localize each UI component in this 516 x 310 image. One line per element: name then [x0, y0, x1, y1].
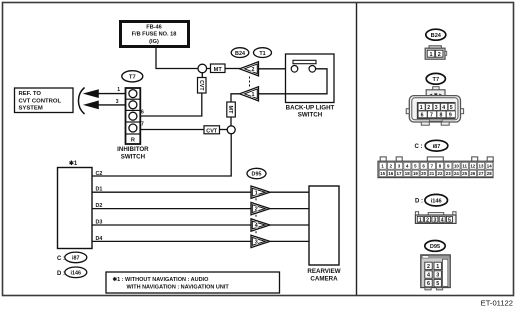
- wire J1 to MT box: [207, 68, 211, 70]
- CVT label box (horizontal): [204, 126, 220, 135]
- svg-text:SWITCH: SWITCH: [298, 112, 323, 119]
- svg-text:22: 22: [438, 171, 443, 176]
- connector T7 drawing (9-pin): [406, 87, 463, 126]
- svg-text:1: 1: [420, 105, 423, 111]
- svg-text:✱1 : WITHOUT NAVIGATION : AUD: ✱1 : WITHOUT NAVIGATION : AUDIO: [113, 276, 210, 283]
- svg-text:WITH NAVIGATION : NAVIGATION: WITH NAVIGATION : NAVIGATION UNIT: [127, 284, 230, 290]
- connector i87 drawing (28-pin): [378, 157, 493, 178]
- junction J1: [198, 64, 207, 73]
- svg-text:6: 6: [427, 281, 430, 287]
- wire D4: [92, 240, 251, 242]
- svg-text:SWITCH: SWITCH: [121, 153, 146, 160]
- CVT label box (vertical, under J1): [198, 73, 207, 93]
- svg-text:6: 6: [141, 109, 144, 115]
- inhibitor switch: [116, 87, 149, 161]
- wire fuse to junction J1: [156, 47, 198, 69]
- connector i146 drawing (5-pin): [415, 212, 456, 224]
- T1 ellipse label (schematic): [254, 48, 272, 58]
- svg-text:T7: T7: [433, 77, 440, 83]
- MT label box (upper): [211, 64, 226, 73]
- connector D95 drawing (6-pin): [421, 255, 450, 290]
- D95 ellipse label (schematic): [247, 168, 266, 178]
- dashed links between D95 connector pins: [255, 198, 257, 202]
- svg-text:CVT: CVT: [206, 129, 217, 135]
- svg-text:B24: B24: [235, 51, 245, 57]
- svg-text:1: 1: [430, 52, 433, 58]
- svg-text:REF. TO: REF. TO: [19, 91, 42, 97]
- svg-text:9: 9: [449, 112, 452, 118]
- svg-text:CVT: CVT: [198, 80, 204, 91]
- svg-text:27: 27: [479, 171, 484, 176]
- svg-text:26: 26: [470, 171, 475, 176]
- svg-text:MT: MT: [227, 105, 233, 114]
- svg-text:13: 13: [479, 164, 484, 169]
- svg-text:i87: i87: [72, 256, 80, 262]
- svg-text:i146: i146: [71, 271, 82, 277]
- D95 ellipse (panel): [425, 241, 445, 252]
- i87 pin cells: [379, 162, 493, 176]
- connector D95 pin 4: [251, 219, 270, 231]
- svg-text:1: 1: [436, 264, 439, 270]
- connector D95 pin 1: [251, 186, 270, 198]
- MT label box (vertical): [227, 102, 236, 117]
- connector D95 pin 3: [251, 235, 270, 247]
- connector D95 pin 2: [251, 202, 270, 214]
- svg-text:C :: C :: [57, 256, 65, 262]
- svg-text:3: 3: [435, 105, 438, 111]
- wire CVT box to J2: [220, 129, 228, 131]
- svg-text:7: 7: [141, 122, 144, 128]
- connector B24/T1 pin 1: [240, 87, 259, 101]
- svg-text:1: 1: [255, 190, 258, 196]
- wire D95 pin2 to camera: [270, 208, 309, 210]
- svg-text:BACK-UP LIGHT: BACK-UP LIGHT: [286, 105, 335, 112]
- svg-text:2: 2: [252, 67, 255, 73]
- arrow inhibitor pin1 to CVT control: [84, 90, 126, 98]
- wire D3: [92, 224, 251, 226]
- back-up light switch: [286, 54, 335, 119]
- wire D95 pin3 to camera: [270, 240, 309, 242]
- svg-text:24: 24: [454, 171, 459, 176]
- svg-text:3: 3: [116, 99, 119, 105]
- svg-text:23: 23: [446, 171, 451, 176]
- B24 ellipse label (schematic): [231, 48, 249, 58]
- svg-text:1: 1: [117, 87, 120, 93]
- D: i146 label (schematic): [57, 267, 87, 278]
- T7 pin cells row 1: [418, 103, 455, 110]
- svg-text:14: 14: [487, 164, 492, 169]
- svg-text:F/B FUSE NO. 18: F/B FUSE NO. 18: [132, 32, 177, 38]
- svg-text:1: 1: [252, 92, 255, 98]
- wire MT box to connector pin2: [225, 68, 240, 70]
- svg-text:D1: D1: [96, 186, 103, 192]
- dashed link between connector halves: [249, 77, 251, 88]
- wire MT vertical to junction J2: [230, 117, 232, 126]
- svg-text:20: 20: [421, 171, 426, 176]
- svg-text:D :: D :: [415, 199, 423, 205]
- svg-text:21: 21: [429, 171, 434, 176]
- svg-text:7: 7: [430, 112, 433, 118]
- T7 ellipse (panel): [426, 73, 445, 84]
- rearview camera: [307, 186, 340, 282]
- svg-text:15: 15: [380, 171, 385, 176]
- svg-text:1: 1: [419, 217, 422, 223]
- svg-text:T1: T1: [259, 51, 265, 57]
- svg-text:D2: D2: [96, 203, 103, 209]
- fuse FB-46: [121, 22, 189, 47]
- svg-text:12: 12: [470, 164, 475, 169]
- svg-text:5: 5: [436, 281, 439, 287]
- T7 ellipse label: [122, 71, 143, 82]
- connector B24 drawing (2-pin): [425, 46, 446, 59]
- svg-text:D95: D95: [430, 244, 440, 250]
- svg-text:CVT CONTROL: CVT CONTROL: [19, 98, 62, 104]
- REF TO CVT CONTROL SYSTEM box: [15, 88, 74, 113]
- svg-text:25: 25: [462, 171, 467, 176]
- svg-text:4: 4: [442, 105, 445, 111]
- junction J2: [227, 126, 235, 134]
- svg-text:SYSTEM: SYSTEM: [19, 106, 43, 112]
- svg-text:4: 4: [441, 217, 444, 223]
- svg-text:D95: D95: [252, 172, 262, 178]
- note box *1: [106, 272, 280, 293]
- svg-text:D :: D :: [57, 271, 65, 277]
- B24 ellipse (panel): [426, 29, 446, 40]
- svg-text:4: 4: [427, 273, 430, 279]
- svg-text:2: 2: [255, 207, 258, 213]
- wire pin 7 to CVT horizontal box: [140, 129, 204, 131]
- wire J2 down to unit pin C2: [92, 134, 231, 176]
- svg-text:8: 8: [439, 112, 442, 118]
- svg-text:16: 16: [388, 171, 393, 176]
- connector B24/T1 pin 2: [240, 62, 259, 76]
- svg-text:i146: i146: [431, 199, 442, 205]
- svg-text:REARVIEW: REARVIEW: [307, 268, 340, 275]
- wire D2: [92, 208, 251, 210]
- svg-text:MT: MT: [214, 67, 223, 73]
- svg-text:T7: T7: [129, 75, 136, 81]
- audio / navigation unit *1: [58, 160, 93, 249]
- svg-text:2: 2: [427, 264, 430, 270]
- svg-text:3: 3: [255, 240, 258, 246]
- svg-text:CAMERA: CAMERA: [310, 275, 338, 282]
- svg-text:FB-46: FB-46: [146, 24, 162, 30]
- C: i87 label (panel): [415, 140, 448, 151]
- D: i146 label (panel): [415, 194, 448, 206]
- svg-text:28: 28: [487, 171, 492, 176]
- svg-text:i87: i87: [433, 144, 441, 150]
- svg-text:B24: B24: [431, 33, 442, 39]
- wire switch to connector pin 1: [259, 93, 286, 95]
- wire pin2 to back-up light switch: [259, 68, 292, 70]
- svg-text:2: 2: [438, 52, 441, 58]
- T7 pin cells row 2: [418, 111, 455, 118]
- svg-text:INHIBITOR: INHIBITOR: [117, 146, 149, 153]
- svg-text:17: 17: [397, 171, 402, 176]
- svg-text:C :: C :: [415, 144, 423, 150]
- arc bracket: [78, 88, 84, 115]
- wire pin1 to MT vertical box: [231, 94, 240, 102]
- wire D95 pin1 to camera: [270, 191, 309, 193]
- svg-text:19: 19: [413, 171, 418, 176]
- svg-text:18: 18: [405, 171, 410, 176]
- svg-text:ET-01122: ET-01122: [481, 299, 513, 308]
- C: i87 label (schematic): [57, 252, 87, 263]
- svg-text:5: 5: [448, 217, 451, 223]
- svg-text:3: 3: [433, 217, 436, 223]
- svg-text:6: 6: [421, 112, 424, 118]
- wire D1: [92, 191, 251, 193]
- wire CVT box to inhibitor pin 6: [140, 93, 202, 116]
- svg-text:✱1: ✱1: [69, 160, 78, 167]
- svg-text:10: 10: [454, 164, 459, 169]
- svg-text:(IG): (IG): [149, 39, 159, 45]
- wire D95 pin4 to camera: [270, 224, 309, 226]
- svg-text:11: 11: [462, 164, 467, 169]
- arrow inhibitor pin3 to CVT control: [84, 101, 126, 109]
- svg-text:2: 2: [427, 105, 430, 111]
- svg-text:3: 3: [436, 273, 439, 279]
- svg-text:5: 5: [450, 105, 453, 111]
- svg-text:R: R: [131, 138, 135, 144]
- svg-text:2: 2: [426, 217, 429, 223]
- svg-text:4: 4: [255, 223, 258, 229]
- svg-text:C2: C2: [96, 171, 103, 177]
